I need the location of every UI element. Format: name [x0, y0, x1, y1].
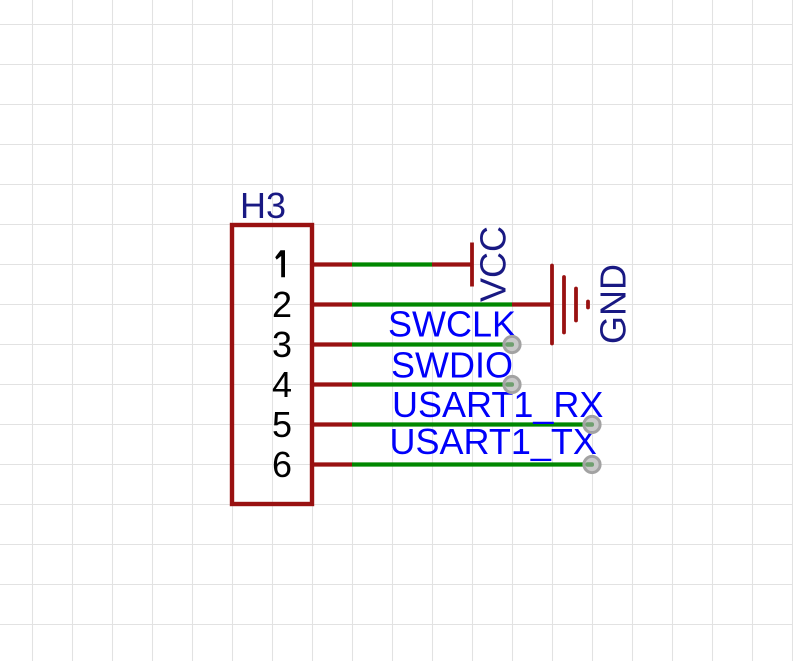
GND bar 2: [562, 277, 566, 333]
svg-text:SWDIO: SWDIO: [391, 345, 513, 386]
wire SWDIO: [352, 382, 512, 386]
unconnected end marker pin 4: [504, 376, 520, 392]
svg-text:2: 2: [272, 284, 292, 325]
pin 3 stub wire: [312, 342, 352, 346]
VCC power symbol lead: [432, 262, 472, 266]
pin 1 stub wire: [312, 262, 352, 266]
svg-text:4: 4: [272, 364, 292, 405]
wire pin1 to VCC: [352, 262, 432, 266]
unconnected end marker pin 3: [504, 336, 520, 352]
wire SWCLK: [352, 342, 512, 346]
GND bar 4: [586, 302, 590, 308]
wire USART1_RX: [352, 422, 592, 426]
unconnected end marker pin 5: [584, 416, 600, 432]
svg-text:GND: GND: [593, 264, 634, 344]
pin 5 stub wire: [312, 422, 352, 426]
connector H3 body: [232, 225, 312, 504]
svg-text:3: 3: [272, 324, 292, 365]
VCC power bar: [470, 243, 474, 287]
pin 2 stub wire: [312, 302, 352, 306]
GND bar 1: [550, 266, 554, 344]
GND bar 3: [574, 289, 578, 321]
svg-text:5: 5: [272, 404, 292, 445]
wire pin2 to GND: [352, 302, 512, 306]
svg-text:H3: H3: [240, 185, 286, 226]
svg-text:USART1_RX: USART1_RX: [392, 384, 603, 425]
wire USART1_TX: [352, 462, 592, 466]
svg-text:SWCLK: SWCLK: [388, 304, 516, 345]
pin 1 number: [275, 250, 285, 277]
unconnected end marker pin 6: [584, 456, 600, 472]
svg-text:6: 6: [272, 444, 292, 485]
pin 6 stub wire: [312, 462, 352, 466]
pin 4 stub wire: [312, 382, 352, 386]
GND power symbol lead: [512, 302, 552, 306]
svg-text:VCC: VCC: [473, 226, 514, 302]
svg-text:USART1_TX: USART1_TX: [390, 421, 597, 462]
